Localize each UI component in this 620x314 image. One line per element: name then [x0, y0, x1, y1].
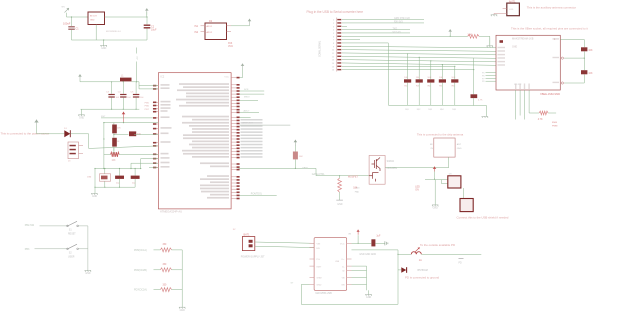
svg-text:10K: 10K: [439, 77, 443, 79]
switch S2: [67, 244, 79, 249]
connector J2 pads: [337, 19, 341, 20]
resistor R2 vertical: [407, 54, 409, 79]
load capacitor C6: [119, 169, 121, 176]
wire ground rail of regulator: [72, 39, 148, 41]
wire to resistor R16: [154, 249, 161, 251]
svg-text:MISO: MISO: [244, 97, 250, 99]
wire from 5V rail down to VCC rail (with net label gap): [136, 48, 138, 54]
svg-text:TXO: TXO: [393, 28, 398, 30]
capacitor C8: [371, 239, 375, 246]
ground of regulator: [103, 40, 105, 45]
svg-text:PD7(OC2A): PD7(OC2A): [134, 289, 147, 292]
resistor R18 under gate net: [339, 175, 340, 176]
wire switch S1 to gnd rail: [78, 225, 88, 227]
svg-text:USB: USB: [335, 261, 340, 263]
svg-text:GND: GND: [85, 273, 90, 275]
ground right of C8: [385, 241, 388, 245]
svg-text:GATE-CTRL: GATE-CTRL: [312, 173, 326, 176]
svg-text:GND: GND: [92, 196, 97, 198]
wire IC3 VCC pin to flag and cap: [352, 242, 372, 244]
svg-text:NDS335N: NDS335N: [387, 168, 398, 170]
net header pin16: [342, 69, 474, 71]
net stub PA0: [240, 116, 251, 118]
wire VIN to diode: [37, 133, 65, 135]
pin stubs U2: [201, 25, 206, 27]
component U2 (dual part) top-center: [205, 23, 227, 40]
IC3 STAT loop wire (bottom): [301, 250, 398, 304]
transistor Q2 body: [369, 156, 385, 185]
power flag 5V (output): [145, 8, 149, 15]
resistor R10 near module bottom: [529, 112, 539, 114]
resistor R4 vertical: [430, 61, 432, 79]
crystal rail ground: [94, 169, 96, 194]
wire regulator gnd pin: [95, 25, 97, 41]
wire VIN to regulator input: [67, 13, 89, 17]
ground under IC3 rail: [368, 290, 370, 294]
vertical net left of reset parts: [103, 123, 105, 169]
svg-text:PG: PG: [317, 259, 320, 261]
svg-text:U.FL: U.FL: [509, 9, 515, 11]
wire XTAL2 to IC2: [131, 163, 158, 168]
wires VCC rail to IC2 power pins: [139, 82, 158, 86]
svg-text:STAT: STAT: [317, 277, 323, 280]
wire to switch S2: [35, 248, 68, 250]
svg-text:XBEE-1MM-SMD: XBEE-1MM-SMD: [540, 92, 560, 96]
IC2 left-column pin names: [161, 84, 170, 86]
svg-text:This is connected to the power: This is connected to the power source: [1, 131, 50, 135]
resistor R17 zigzag: [160, 268, 171, 272]
svg-text:10K: 10K: [588, 73, 593, 75]
net RXI (header pin2): [342, 22, 424, 24]
wire LED1 to gnd rail: [172, 249, 183, 251]
wire to IC2 VIN pin: [89, 146, 159, 149]
svg-text:MOSFET: MOSFET: [348, 175, 359, 178]
svg-text:ANT: ANT: [457, 143, 462, 146]
wire regulator output: [105, 16, 147, 18]
net stub lower right of IC2: [240, 194, 277, 196]
PTC fuse F1: [411, 252, 421, 255]
svg-text:GATE: GATE: [302, 166, 308, 169]
svg-text:10K: 10K: [467, 33, 472, 36]
svg-text:IN OUT: IN OUT: [90, 16, 98, 18]
IC2 right-column pin names: [179, 83, 229, 85]
resistor R7: [581, 47, 587, 51]
svg-text:4.7K: 4.7K: [478, 100, 483, 102]
svg-text:ADC7: ADC7: [244, 109, 251, 112]
svg-text:10K: 10K: [427, 77, 431, 79]
switch S1: [67, 221, 79, 226]
crystal bottom rail: [95, 186, 135, 188]
resistor R18 zigzag: [160, 288, 171, 292]
net header pin15: [342, 65, 455, 67]
svg-text:1A: 1A: [419, 259, 422, 262]
pullup resistor R11 on gate net: [295, 168, 296, 169]
net RESET long wire to gate: [238, 168, 369, 175]
svg-text:ATMEGA324P-AU: ATMEGA324P-AU: [160, 210, 182, 214]
wire Q2 drain to RF connector: [385, 157, 449, 168]
radio module U3 body: [496, 35, 560, 90]
svg-text:PD6(OC2B): PD6(OC2B): [134, 269, 147, 272]
power flag above IC3: [357, 230, 360, 235]
ferrite bead L1: [120, 78, 132, 82]
module right pin1 net: [560, 40, 584, 48]
module bottom pin nets: [515, 90, 517, 120]
svg-text:PD: PD: [459, 263, 463, 265]
svg-text:IC2: IC2: [161, 76, 165, 79]
svg-text:GND: GND: [101, 48, 106, 50]
svg-text:VCC: VCC: [224, 77, 229, 79]
power flag above R11: [294, 140, 298, 146]
LED1 box: [448, 176, 461, 188]
net VCC (header pin5): [342, 32, 410, 34]
wire switch S2 to gnd rail: [78, 248, 88, 250]
resistor R9 on CTS net: [468, 34, 479, 38]
svg-text:GND: GND: [180, 310, 185, 312]
module right inside pin names: [553, 38, 560, 39]
svg-text:GND: GND: [317, 285, 322, 287]
ground right of R9: [487, 46, 493, 47]
decoupling capacitor C5: [135, 82, 137, 94]
svg-text:A1 K1: A1 K1: [207, 25, 214, 28]
battery connector J4: [242, 237, 254, 251]
IC3 left pin stubs: [310, 242, 315, 244]
IC2 right pin pads: [231, 77, 236, 79]
resistor R8: [583, 58, 585, 70]
svg-text:PB2-SW: PB2-SW: [25, 224, 35, 227]
power flag VIN (top-left): [65, 8, 70, 13]
power jack J3: [68, 142, 79, 159]
resistor R15 zigzag: [113, 148, 115, 155]
net AREF long stub: [240, 124, 291, 126]
load capacitor C7: [134, 169, 136, 176]
svg-text:RST: RST: [101, 116, 106, 118]
svg-text:GND: GND: [79, 117, 84, 119]
svg-text:MC33269D-5.0: MC33269D-5.0: [106, 31, 122, 33]
svg-text:GND: GND: [457, 148, 462, 150]
power flag above LED1 box: [433, 167, 437, 172]
ground below switches: [85, 270, 91, 271]
diode D1: [64, 130, 70, 137]
stub at IC2 pin: [149, 167, 158, 169]
svg-text:VIN: VIN: [317, 244, 321, 246]
net header pin11 to module: [342, 53, 496, 55]
wire IC3 D+ to loop corner: [352, 249, 399, 251]
crystal top rail: [95, 168, 141, 170]
IC2 left pin pads: [153, 85, 159, 87]
wire XTAL1 to IC2: [141, 159, 159, 169]
svg-text:RESET: RESET: [68, 234, 76, 236]
svg-text:Plug in the USB to Serial conv: Plug in the USB to Serial converter here: [307, 10, 364, 14]
svg-text:Connect this to the USB shield: Connect this to the USB shield if needed: [457, 216, 509, 220]
svg-text:A2 K2: A2 K2: [207, 31, 214, 34]
decoupling capacitor C3: [111, 82, 113, 94]
USB shield box: [460, 199, 473, 212]
svg-text:RXI-3V3: RXI-3V3: [394, 22, 403, 24]
net header pin13 to module: [342, 60, 496, 62]
svg-text:GRN DTR-CLR: GRN DTR-CLR: [394, 18, 410, 20]
svg-text:This is the auxiliary antenna: This is the auxiliary antenna connector: [527, 6, 576, 10]
crystal Q1: [104, 169, 106, 174]
power flag VCC near U2: [248, 19, 252, 26]
power flag AREF (red): [122, 112, 126, 118]
antenna ground: [491, 15, 497, 16]
antenna pin stubs: [503, 8, 507, 10]
svg-text:10K: 10K: [353, 188, 358, 190]
antenna connector body: [507, 3, 520, 16]
resistor R6 on pin16 net: [473, 58, 475, 94]
net VCC to reset divider: [104, 122, 158, 124]
ground below LEDs: [179, 307, 185, 308]
svg-text:10K: 10K: [416, 77, 420, 79]
power flag VCC left of IC2: [78, 74, 82, 80]
wire C8 to ground: [375, 242, 385, 244]
net CTS with pullup (header pin6): [342, 35, 468, 37]
svg-text:SI2302: SI2302: [387, 161, 395, 163]
svg-text:VCC: VCC: [228, 45, 233, 48]
svg-text:10K: 10K: [451, 77, 455, 79]
svg-text:PWM: PWM: [552, 126, 558, 128]
svg-text:10uF: 10uF: [151, 29, 157, 32]
module right pin3 (inverted): [561, 82, 563, 84]
svg-text:16M: 16M: [87, 177, 91, 179]
svg-text:PB3: PB3: [25, 248, 30, 251]
resistor R3 vertical: [418, 57, 420, 79]
wire to resistor R17: [154, 269, 161, 271]
svg-text:PC4(TDO): PC4(TDO): [251, 193, 262, 195]
capacitor C1 (input): [71, 17, 73, 26]
svg-text:USER: USER: [68, 257, 75, 259]
net header pin10 to module: [342, 50, 496, 52]
resistor R13 lower: [112, 138, 117, 147]
svg-text:10K: 10K: [117, 128, 121, 130]
module pin1 pad: [500, 40, 504, 43]
svg-text:PD is connected to ground: PD is connected to ground: [405, 276, 439, 280]
svg-text:4.7K: 4.7K: [538, 118, 543, 121]
wire diode to corner: [71, 134, 89, 149]
wire U2 to VCC flag: [231, 24, 250, 27]
svg-text:This is connected to the chip: This is connected to the chip antenna: [417, 133, 464, 137]
wire LED2 to gnd rail: [172, 269, 183, 271]
net header pin8 drops to pullup rail: [342, 43, 388, 105]
module right pin2 (inverted): [561, 57, 563, 59]
svg-text:To the outside available PD: To the outside available PD: [420, 243, 455, 247]
resistor R16 zigzag: [160, 248, 171, 252]
svg-text:MAXSTREAM-1XB: MAXSTREAM-1XB: [512, 38, 534, 41]
ground at end of pullup rail: [485, 105, 487, 116]
wire LED1 box to USB box: [462, 188, 464, 199]
svg-text:B57891M: B57891M: [418, 269, 428, 272]
svg-text:GND: GND: [512, 47, 517, 49]
svg-text:D-: D-: [342, 266, 345, 268]
thermistor TH1: [401, 267, 406, 273]
svg-text:GN: GN: [341, 285, 345, 287]
svg-text:SCK: SCK: [244, 89, 249, 91]
wire battery to IC3 pin1: [255, 242, 314, 243]
svg-text:This is the XBee socket, all r: This is the XBee socket, all required pi…: [511, 27, 588, 31]
wire fuse to stub: [421, 253, 481, 255]
IC3 right pins to vertical rail: [352, 265, 367, 267]
wire VCC rail upper: [80, 81, 120, 83]
wire loop to fuse: [398, 253, 411, 255]
net stub pin3: [342, 25, 347, 27]
series resistor R14 on reset net: [114, 134, 128, 136]
wire to LED1 box: [425, 179, 448, 181]
svg-text:D D R C: D D R C: [514, 84, 522, 86]
wire LED3 to gnd rail: [172, 289, 183, 291]
wire R9 to ground: [479, 36, 490, 46]
power flag VIN2 (outline arrow): [34, 120, 38, 126]
net header pin9 to module: [342, 46, 496, 48]
decoupling capacitor C4: [122, 82, 124, 94]
svg-text:GND: GND: [433, 208, 438, 210]
switch ground rail: [87, 226, 89, 271]
transistor Q2 symbol: [369, 158, 380, 182]
charger IC3 body: [314, 238, 347, 291]
svg-text:GND: GND: [366, 297, 371, 299]
svg-text:ISET: ISET: [317, 266, 323, 268]
ground symbol left of cap rail: [81, 109, 83, 115]
svg-text:1uF: 1uF: [376, 236, 381, 238]
svg-text:LED: LED: [415, 187, 420, 189]
net wire at RESET pin: [101, 117, 153, 119]
gray net labels right of IC2 middle pins: [241, 119, 263, 121]
power flag above CTS net: [448, 29, 452, 33]
svg-text:CONN_SERIAL: CONN_SERIAL: [319, 40, 322, 57]
resistor R6 vertical: [454, 66, 456, 79]
ground rail under decoupling caps: [81, 108, 140, 110]
net header pin12 to module: [342, 56, 496, 58]
svg-text:POWER-SUPPLY-JST: POWER-SUPPLY-JST: [241, 255, 265, 258]
net stubs right of IC2 upper: [240, 90, 265, 92]
svg-text:EN: EN: [317, 248, 320, 250]
module left lower pin stubs: [486, 72, 497, 74]
ground under LED1 arrow: [434, 178, 436, 179]
svg-text:10K: 10K: [112, 160, 117, 162]
resistor R5 vertical: [441, 65, 443, 80]
module bottom inside pin names: [515, 84, 516, 90]
net header pin14 to module: [342, 63, 496, 65]
resistor R12 upper: [113, 123, 115, 125]
svg-text:MAX1555-USB: MAX1555-USB: [316, 292, 333, 295]
module left inside pin names: [498, 47, 506, 48]
microcontroller IC2 body: [158, 73, 231, 209]
svg-text:GND GND GND: GND GND GND: [359, 254, 376, 256]
net DTR (header pin1): [342, 19, 424, 21]
ground drop at module left: [489, 38, 491, 45]
svg-text:VCC-IO: VCC-IO: [393, 32, 401, 34]
svg-text:10K: 10K: [588, 50, 593, 52]
svg-text:100uF: 100uF: [63, 22, 71, 26]
svg-text:RSSI: RSSI: [552, 122, 557, 124]
capacitor C2 (output): [146, 17, 148, 24]
pullup bottom rail: [388, 104, 486, 106]
svg-text:10K: 10K: [404, 77, 408, 79]
net TXO (header pin4): [342, 29, 410, 31]
RF connector box: [434, 138, 455, 157]
wire divider bottom to rail: [113, 147, 115, 152]
IC3 right pin stubs: [347, 242, 352, 244]
wire to resistor R18: [154, 289, 161, 291]
svg-text:PD5(OC1A): PD5(OC1A): [134, 249, 147, 252]
net stub symbol: [459, 258, 464, 260]
wire battery to IC3 pin2: [255, 246, 314, 247]
power flag at IC2 top-right: [241, 64, 245, 69]
svg-text:VIN: VIN: [61, 7, 65, 9]
wire to switch S1: [40, 225, 68, 227]
svg-text:GND: GND: [90, 20, 95, 22]
voltage regulator IC1: [88, 12, 105, 25]
svg-text:ON: ON: [415, 190, 419, 192]
svg-text:VCC: VCC: [340, 244, 345, 246]
svg-text:10K: 10K: [299, 156, 303, 158]
net header pin7 stub: [342, 39, 360, 41]
jack pin stubs: [79, 145, 84, 147]
LED ground rail: [181, 250, 183, 307]
connector J2 body line: [336, 18, 338, 72]
svg-text:PAD: PAD: [355, 191, 360, 194]
svg-text:GND: GND: [337, 204, 342, 206]
